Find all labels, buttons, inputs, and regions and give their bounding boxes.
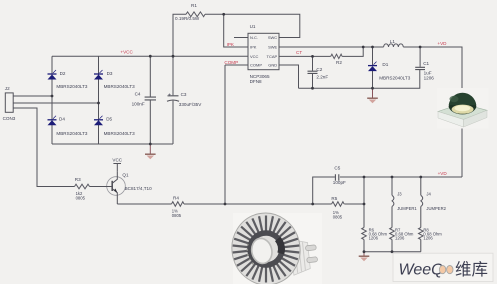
svg-text:VCC: VCC — [250, 54, 259, 59]
svg-text:JUMPER2: JUMPER2 — [426, 206, 446, 211]
svg-text:维库: 维库 — [455, 260, 488, 279]
label C3 value — [168, 92, 202, 107]
ground below C4 — [145, 144, 156, 159]
label D4 value — [56, 116, 88, 136]
wire TCAP / CT node through R2 — [279, 47, 363, 56]
svg-text:1206: 1206 — [423, 236, 433, 241]
svg-text:MBRS2040LT3: MBRS2040LT3 — [379, 75, 411, 80]
jumper J4 arc — [421, 195, 423, 206]
svg-text:MBRS2040LT3: MBRS2040LT3 — [56, 84, 88, 89]
wire AC input 1 — [13, 95, 52, 97]
svg-text:R2: R2 — [336, 60, 342, 65]
resistor R6 — [362, 228, 367, 240]
wire C1 top — [419, 47, 421, 67]
photo: Cree LED star emitter — [437, 88, 489, 129]
wire AC input 3 to R3 — [13, 108, 74, 187]
diode D1 — [368, 62, 377, 72]
svg-text:GND: GND — [268, 63, 277, 68]
transistor Q1 — [90, 171, 153, 204]
label J3 jumper — [397, 191, 417, 210]
svg-text:R5: R5 — [331, 196, 337, 201]
svg-text:100pF: 100pF — [333, 180, 346, 185]
label R5 value — [331, 196, 342, 219]
svg-text:SWC: SWC — [268, 35, 277, 40]
label C2 value — [316, 67, 328, 80]
svg-text:2.2nF: 2.2nF — [316, 74, 328, 79]
wire bridge left vertical — [51, 56, 53, 144]
svg-text:DFN8: DFN8 — [250, 79, 262, 84]
label C4 value — [132, 91, 145, 106]
diode D4 — [48, 116, 57, 126]
svg-text:J2: J2 — [5, 86, 10, 91]
svg-text:1206: 1206 — [369, 236, 379, 241]
inductor L1 — [384, 44, 404, 47]
capacitor C4 — [145, 97, 156, 100]
wire SWE to switch node — [279, 46, 363, 48]
wire COMP net — [225, 65, 248, 204]
wire bottom rail — [52, 143, 173, 145]
label D1 value — [379, 62, 411, 80]
wire IPK from R1 junction — [224, 14, 248, 47]
svg-text:CT: CT — [296, 50, 302, 55]
wire +VD return rail — [313, 177, 462, 204]
ground below D1 — [367, 88, 378, 103]
svg-text:IPK: IPK — [250, 45, 257, 50]
wire sense resistor vertical R6 — [363, 177, 365, 252]
svg-text:R4: R4 — [173, 195, 179, 200]
wire AC input 2 — [13, 102, 98, 104]
svg-text:BC817/4,T10: BC817/4,T10 — [125, 186, 153, 191]
wire C4 branch — [149, 56, 151, 144]
label R4 value — [172, 195, 182, 218]
label R3 value — [75, 177, 86, 200]
label R1 value — [175, 3, 200, 21]
capacitor C5 — [335, 174, 338, 180]
svg-text:D2: D2 — [60, 71, 66, 76]
svg-text:0805: 0805 — [76, 195, 86, 200]
svg-text:C3: C3 — [181, 92, 187, 97]
svg-text:L1: L1 — [390, 39, 396, 44]
svg-text:IPK: IPK — [227, 42, 235, 47]
svg-text:WeeQ: WeeQ — [399, 262, 444, 279]
diode D3 — [94, 70, 103, 80]
wire top rail +VCC — [52, 55, 248, 57]
svg-text:D1: D1 — [382, 62, 388, 67]
svg-text:JUMPER1: JUMPER1 — [397, 206, 417, 211]
svg-text:+: + — [168, 92, 171, 98]
wire Q1 emitter to sense node — [117, 203, 364, 205]
svg-text:TCAP: TCAP — [267, 54, 278, 59]
svg-text:N.C.: N.C. — [250, 35, 258, 40]
op-amp U1 NCP3065 — [248, 24, 279, 84]
wire LED cathode down — [461, 128, 463, 177]
svg-text:0.19R/0.5W: 0.19R/0.5W — [175, 16, 200, 21]
svg-text:D5: D5 — [106, 116, 112, 121]
svg-text:C4: C4 — [135, 91, 141, 96]
svg-text:C2: C2 — [316, 67, 322, 72]
svg-text:COMP: COMP — [224, 60, 238, 65]
label D3 value — [104, 71, 136, 89]
svg-text:D4: D4 — [59, 116, 65, 121]
svg-text:0805: 0805 — [333, 214, 343, 219]
svg-text:J4: J4 — [426, 191, 431, 196]
svg-text:+VD: +VD — [438, 171, 448, 176]
wire D1 vertical — [372, 47, 374, 88]
svg-text:MBRS2040LT3: MBRS2040LT3 — [56, 131, 88, 136]
svg-text:C1: C1 — [423, 61, 429, 66]
capacitor C1 — [415, 67, 425, 69]
svg-text:MBRS2040LT3: MBRS2040LT3 — [104, 84, 136, 89]
capacitor C2 — [308, 71, 318, 73]
label C1 value — [423, 61, 434, 80]
resistor R5 — [332, 202, 345, 207]
wire ground bus under converter — [299, 70, 420, 88]
wire R1 branch and top loop to SWC — [173, 14, 300, 56]
label D5 value — [104, 116, 136, 136]
svg-text:330uF/35V: 330uF/35V — [179, 102, 202, 107]
svg-text:SWE: SWE — [268, 45, 277, 50]
power VCC symbol above Q1 — [112, 157, 122, 171]
capacitor C3 (polarized) — [167, 96, 179, 102]
jumper J3 arc — [392, 195, 394, 206]
wire N.C. stub — [234, 37, 248, 39]
label R6 value — [369, 227, 388, 240]
resistor R8 — [419, 228, 424, 240]
wire bridge right vertical — [98, 56, 100, 144]
wire bottom sense ground bus — [364, 251, 421, 253]
svg-text:1206: 1206 — [424, 75, 435, 80]
ground below sense resistors — [359, 252, 370, 262]
svg-text:1206: 1206 — [395, 236, 405, 241]
resistor R3 — [75, 184, 90, 189]
svg-text:+VD: +VD — [437, 41, 447, 46]
label J4 jumper — [426, 191, 446, 210]
label D2 value — [56, 71, 88, 89]
label C5 value — [333, 165, 346, 184]
svg-text:VCC: VCC — [112, 157, 122, 162]
svg-text:U1: U1 — [250, 24, 256, 29]
svg-text:C5: C5 — [334, 165, 340, 170]
svg-text:0805: 0805 — [172, 213, 182, 218]
resistor R7 — [390, 228, 395, 240]
svg-text:CON3: CON3 — [3, 116, 16, 121]
resistor R2 — [331, 54, 342, 58]
photo: MR16 LED lamp — [225, 207, 322, 284]
resistor R4 — [172, 202, 185, 207]
diode D2 — [48, 70, 57, 80]
connector J2 — [3, 86, 16, 121]
wire switch node to L1 and output — [363, 47, 462, 90]
svg-text:100nF: 100nF — [132, 101, 145, 106]
svg-text:R1: R1 — [191, 3, 197, 8]
resistor R1 — [186, 12, 205, 17]
label R7 value — [395, 227, 414, 240]
wire GND pin of U1 — [279, 65, 299, 88]
wire C3 branch — [172, 56, 174, 144]
svg-text:MBRS2040LT3: MBRS2040LT3 — [104, 131, 136, 136]
wire C2 branch — [312, 56, 314, 88]
svg-text:+VCC: +VCC — [120, 49, 133, 54]
wire jumper J4 branch — [420, 177, 422, 252]
svg-text:COMP: COMP — [250, 63, 262, 68]
svg-text:R3: R3 — [75, 177, 81, 182]
watermark WeeQoo — [393, 253, 493, 281]
svg-text:D3: D3 — [107, 71, 113, 76]
wire jumper J3 branch — [391, 177, 393, 252]
svg-text:J3: J3 — [397, 191, 402, 196]
diode D5 — [94, 116, 103, 126]
svg-text:Q1: Q1 — [122, 173, 129, 178]
label R8 value — [423, 227, 442, 240]
